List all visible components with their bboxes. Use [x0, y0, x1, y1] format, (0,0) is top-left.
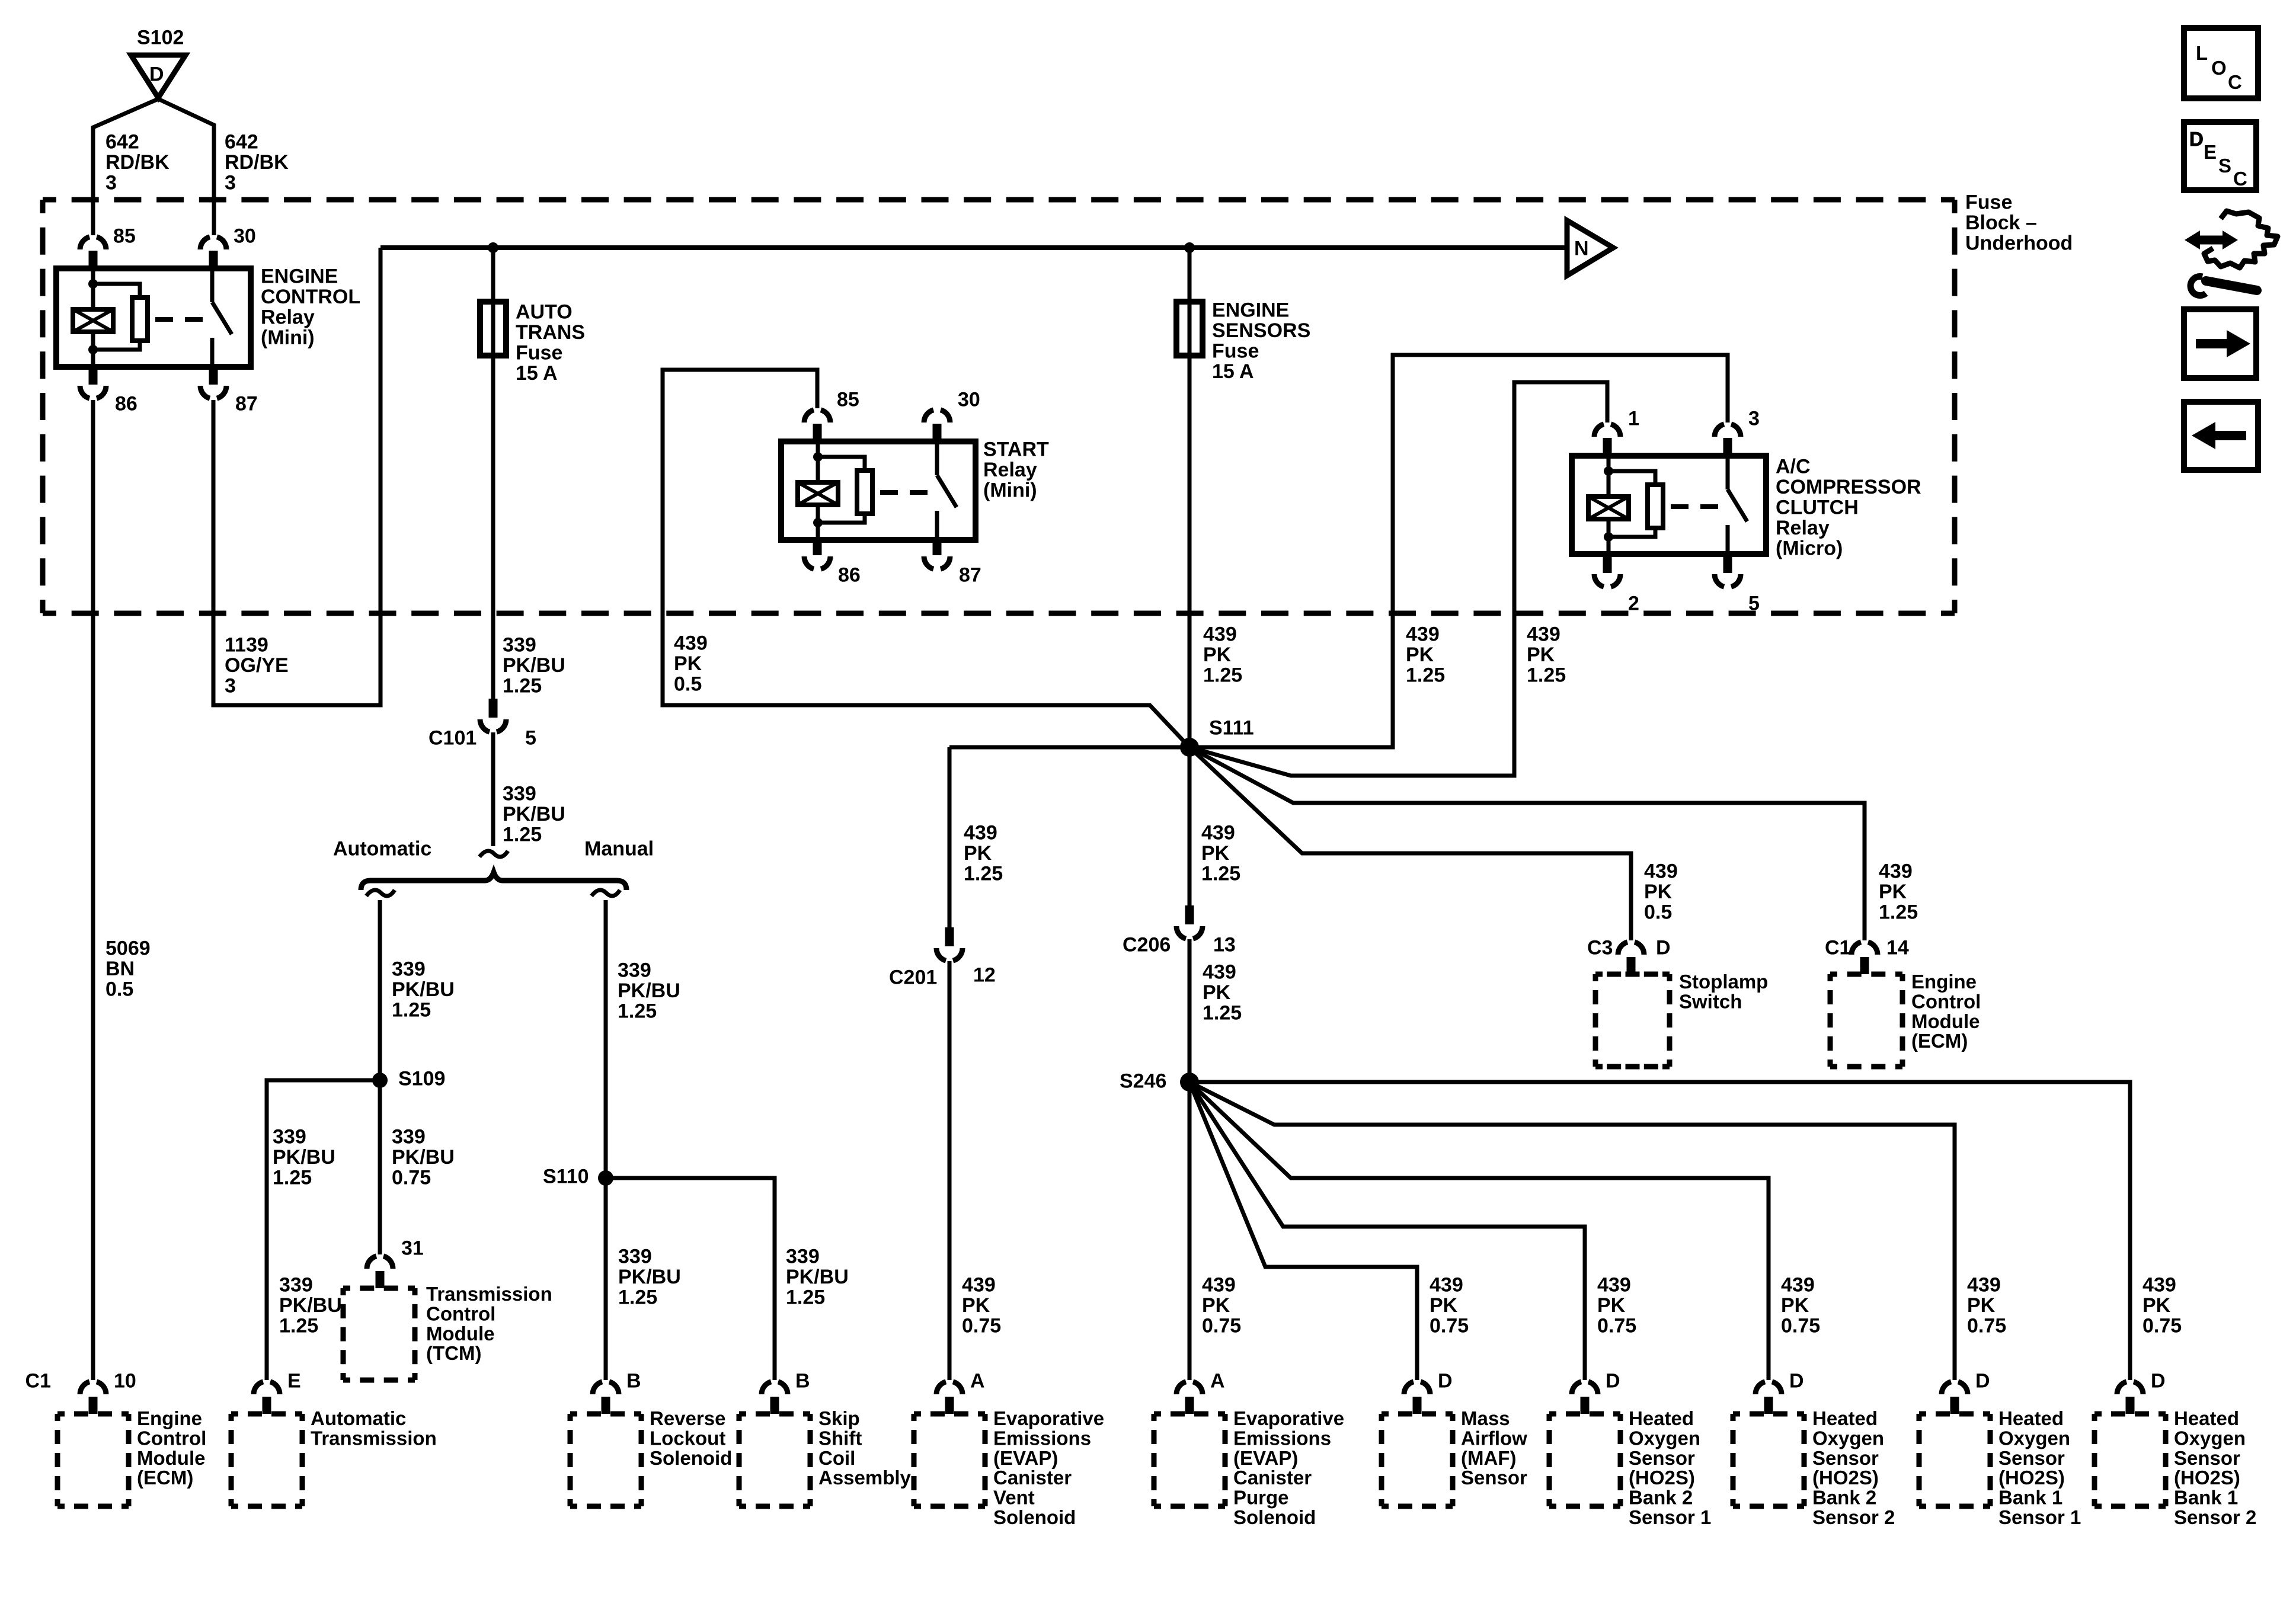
svg-text:1.25: 1.25 [273, 1167, 312, 1189]
svg-text:Shift: Shift [818, 1427, 862, 1449]
svg-text:C: C [2233, 168, 2247, 190]
svg-text:1.25: 1.25 [503, 824, 542, 846]
svg-text:Sensor: Sensor [1998, 1447, 2065, 1469]
svg-text:S109: S109 [398, 1068, 445, 1090]
svg-text:Heated: Heated [1629, 1407, 1694, 1429]
svg-text:87: 87 [235, 393, 258, 415]
svg-text:PK: PK [1527, 644, 1555, 666]
svg-text:B: B [626, 1370, 641, 1393]
svg-text:RD/BK: RD/BK [105, 151, 170, 174]
svg-text:Fuse: Fuse [1965, 191, 2012, 214]
svg-text:ENGINE: ENGINE [1212, 299, 1289, 322]
svg-text:1.25: 1.25 [786, 1286, 825, 1309]
svg-text:Transmission: Transmission [426, 1283, 552, 1305]
svg-text:15 A: 15 A [516, 362, 558, 385]
svg-text:Evaporative: Evaporative [993, 1407, 1104, 1429]
svg-text:S110: S110 [543, 1166, 589, 1188]
svg-text:1.25: 1.25 [964, 863, 1003, 885]
svg-text:E: E [287, 1370, 301, 1393]
svg-text:439: 439 [1879, 860, 1913, 883]
svg-text:439: 439 [1203, 961, 1236, 984]
svg-text:Sensor 2: Sensor 2 [1812, 1506, 1895, 1528]
svg-text:30: 30 [958, 389, 980, 411]
svg-text:Skip: Skip [818, 1407, 860, 1429]
svg-text:C201: C201 [889, 966, 937, 989]
svg-text:14: 14 [1886, 937, 1909, 959]
svg-text:D: D [2189, 128, 2204, 150]
svg-text:5: 5 [525, 727, 536, 750]
svg-text:1: 1 [1628, 408, 1639, 430]
svg-text:Canister: Canister [993, 1467, 1072, 1489]
svg-text:1.25: 1.25 [392, 999, 431, 1022]
svg-text:Relay: Relay [1776, 517, 1830, 539]
svg-text:339: 339 [618, 1246, 652, 1268]
svg-text:439: 439 [962, 1274, 996, 1297]
svg-text:PK/BU: PK/BU [503, 803, 565, 825]
svg-text:Mass: Mass [1461, 1407, 1510, 1429]
svg-text:Automatic: Automatic [311, 1407, 406, 1429]
svg-text:0.5: 0.5 [1644, 901, 1672, 924]
svg-text:Control: Control [137, 1427, 206, 1449]
svg-text:D: D [1975, 1370, 1990, 1393]
svg-text:30: 30 [234, 225, 256, 248]
svg-text:Engine: Engine [137, 1407, 202, 1429]
svg-text:PK/BU: PK/BU [618, 1266, 681, 1288]
svg-text:Sensor: Sensor [1629, 1447, 1695, 1469]
svg-text:PK: PK [1644, 881, 1673, 903]
svg-text:Fuse: Fuse [1212, 340, 1259, 363]
svg-text:3: 3 [1748, 408, 1760, 430]
svg-text:C1: C1 [1825, 937, 1850, 959]
svg-text:339: 339 [392, 1126, 426, 1148]
svg-text:Sensor: Sensor [2174, 1447, 2240, 1469]
svg-text:439: 439 [1967, 1274, 2001, 1297]
svg-text:0.75: 0.75 [1597, 1315, 1636, 1337]
svg-text:Underhood: Underhood [1965, 232, 2073, 255]
svg-text:PK: PK [962, 1294, 990, 1317]
svg-text:(MAF): (MAF) [1461, 1447, 1516, 1469]
svg-text:439: 439 [1430, 1274, 1463, 1297]
svg-text:(EVAP): (EVAP) [1233, 1447, 1298, 1469]
svg-text:PK/BU: PK/BU [786, 1266, 849, 1288]
svg-text:Switch: Switch [1679, 990, 1742, 1012]
svg-text:OG/YE: OG/YE [225, 654, 289, 677]
svg-text:Oxygen: Oxygen [1812, 1427, 1884, 1449]
svg-text:339: 339 [392, 958, 426, 981]
svg-text:0.5: 0.5 [674, 673, 702, 696]
svg-text:439: 439 [674, 632, 708, 655]
svg-text:1.25: 1.25 [503, 675, 542, 697]
svg-text:Coil: Coil [818, 1447, 855, 1469]
svg-text:10: 10 [114, 1370, 136, 1393]
svg-text:S111: S111 [1209, 717, 1254, 740]
svg-text:SENSORS: SENSORS [1212, 319, 1310, 342]
svg-text:Heated: Heated [1998, 1407, 2064, 1429]
svg-text:86: 86 [838, 564, 861, 587]
svg-text:1.25: 1.25 [1203, 1002, 1242, 1025]
svg-text:(HO2S): (HO2S) [1998, 1467, 2065, 1489]
svg-text:Bank 2: Bank 2 [1629, 1487, 1693, 1509]
svg-text:C1: C1 [25, 1370, 51, 1393]
svg-text:Module: Module [426, 1323, 494, 1345]
svg-text:(Mini): (Mini) [261, 327, 315, 349]
svg-text:Solenoid: Solenoid [1233, 1506, 1316, 1528]
svg-text:(ECM): (ECM) [137, 1467, 193, 1489]
svg-text:Manual: Manual [584, 838, 654, 860]
svg-text:L: L [2196, 42, 2208, 64]
svg-text:A: A [970, 1370, 985, 1393]
svg-text:PK: PK [1203, 644, 1232, 666]
svg-text:PK/BU: PK/BU [503, 654, 565, 677]
svg-text:C206: C206 [1123, 934, 1171, 956]
svg-text:439: 439 [1527, 623, 1560, 646]
svg-text:3: 3 [225, 172, 236, 194]
svg-text:0.75: 0.75 [392, 1167, 431, 1189]
svg-text:PK: PK [1201, 842, 1230, 865]
svg-text:642: 642 [105, 131, 139, 153]
svg-text:D: D [1438, 1370, 1453, 1393]
svg-text:PK: PK [1406, 644, 1434, 666]
svg-text:85: 85 [113, 225, 136, 248]
svg-text:TRANS: TRANS [516, 321, 585, 344]
svg-text:439: 439 [964, 822, 997, 844]
svg-text:439: 439 [1781, 1274, 1815, 1297]
svg-text:0.75: 0.75 [1202, 1315, 1241, 1337]
svg-text:3: 3 [225, 675, 236, 697]
svg-text:1.25: 1.25 [1879, 901, 1918, 924]
svg-text:339: 339 [618, 959, 651, 982]
svg-text:Oxygen: Oxygen [1998, 1427, 2070, 1449]
svg-text:Canister: Canister [1233, 1467, 1312, 1489]
svg-text:Emissions: Emissions [993, 1427, 1091, 1449]
svg-text:Sensor 1: Sensor 1 [1998, 1506, 2081, 1528]
svg-text:3: 3 [105, 172, 117, 194]
svg-text:PK: PK [1203, 981, 1231, 1004]
svg-text:Evaporative: Evaporative [1233, 1407, 1344, 1429]
svg-text:C: C [2228, 71, 2242, 93]
svg-text:RD/BK: RD/BK [225, 151, 289, 174]
svg-text:Heated: Heated [2174, 1407, 2239, 1429]
svg-text:S: S [2218, 155, 2231, 177]
svg-text:439: 439 [1406, 623, 1440, 646]
svg-text:Sensor: Sensor [1812, 1447, 1879, 1469]
svg-text:0.75: 0.75 [1430, 1315, 1469, 1337]
svg-text:PK/BU: PK/BU [392, 978, 455, 1001]
svg-text:86: 86 [115, 393, 137, 415]
svg-text:(ECM): (ECM) [1911, 1030, 1968, 1052]
svg-text:N: N [1574, 238, 1589, 260]
svg-text:O: O [2211, 57, 2227, 79]
svg-text:439: 439 [1203, 623, 1237, 646]
svg-text:Reverse: Reverse [650, 1407, 725, 1429]
svg-text:339: 339 [279, 1274, 313, 1297]
svg-text:31: 31 [401, 1237, 424, 1260]
svg-text:Purge: Purge [1233, 1487, 1289, 1509]
svg-text:339: 339 [273, 1126, 306, 1148]
svg-text:C3: C3 [1587, 937, 1613, 959]
svg-text:B: B [795, 1370, 810, 1393]
svg-text:PK: PK [964, 842, 992, 865]
svg-text:Oxygen: Oxygen [2174, 1427, 2246, 1449]
svg-text:Oxygen: Oxygen [1629, 1427, 1700, 1449]
svg-text:339: 339 [503, 634, 536, 657]
svg-text:1.25: 1.25 [1203, 664, 1242, 687]
svg-text:339: 339 [503, 783, 536, 805]
svg-text:PK: PK [1967, 1294, 1996, 1317]
svg-text:Automatic: Automatic [333, 838, 431, 860]
svg-text:PK: PK [1879, 881, 1907, 903]
svg-text:1139: 1139 [225, 634, 268, 657]
svg-text:439: 439 [1597, 1274, 1631, 1297]
svg-text:Block –: Block – [1965, 212, 2037, 234]
svg-text:Assembly: Assembly [818, 1467, 912, 1489]
svg-text:PK/BU: PK/BU [392, 1146, 455, 1169]
svg-text:D: D [1789, 1370, 1804, 1393]
svg-text:1.25: 1.25 [618, 1286, 657, 1309]
svg-text:PK/BU: PK/BU [273, 1146, 335, 1169]
svg-text:Control: Control [1911, 990, 1981, 1012]
svg-text:Sensor: Sensor [1461, 1467, 1527, 1489]
svg-text:0.5: 0.5 [105, 978, 133, 1001]
svg-text:5069: 5069 [105, 937, 151, 960]
svg-text:PK/BU: PK/BU [279, 1294, 342, 1317]
svg-text:ENGINE: ENGINE [261, 265, 338, 288]
svg-text:PK: PK [1597, 1294, 1626, 1317]
svg-text:COMPRESSOR: COMPRESSOR [1776, 476, 1921, 498]
svg-text:Emissions: Emissions [1233, 1427, 1331, 1449]
svg-text:Engine: Engine [1911, 971, 1977, 993]
svg-text:Bank 2: Bank 2 [1812, 1487, 1876, 1509]
svg-text:0.75: 0.75 [1781, 1315, 1820, 1337]
svg-text:(HO2S): (HO2S) [1812, 1467, 1879, 1489]
svg-text:1.25: 1.25 [1527, 664, 1566, 687]
svg-text:0.75: 0.75 [1967, 1315, 2006, 1337]
svg-text:D: D [1606, 1370, 1620, 1393]
svg-text:PK/BU: PK/BU [618, 980, 680, 1002]
svg-text:AUTO: AUTO [516, 301, 573, 324]
svg-text:1.25: 1.25 [1201, 863, 1240, 885]
svg-text:5: 5 [1748, 593, 1760, 615]
svg-text:Control: Control [426, 1302, 495, 1324]
svg-text:Module: Module [137, 1447, 205, 1469]
svg-text:87: 87 [959, 564, 981, 587]
svg-text:(EVAP): (EVAP) [993, 1447, 1058, 1469]
svg-text:(TCM): (TCM) [426, 1342, 481, 1364]
svg-text:Airflow: Airflow [1461, 1427, 1527, 1449]
svg-text:Sensor 1: Sensor 1 [1629, 1506, 1711, 1528]
svg-text:Solenoid: Solenoid [650, 1447, 732, 1469]
svg-text:(HO2S): (HO2S) [1629, 1467, 1695, 1489]
svg-text:E: E [2204, 141, 2217, 163]
svg-text:S102: S102 [137, 27, 184, 49]
svg-text:Vent: Vent [993, 1487, 1035, 1509]
svg-text:0.75: 0.75 [962, 1315, 1001, 1337]
svg-text:(Micro): (Micro) [1776, 537, 1843, 560]
svg-text:Bank 1: Bank 1 [1998, 1487, 2062, 1509]
svg-text:Heated: Heated [1812, 1407, 1878, 1429]
svg-text:642: 642 [225, 131, 258, 153]
svg-text:PK: PK [1430, 1294, 1458, 1317]
svg-text:Solenoid: Solenoid [993, 1506, 1076, 1528]
svg-text:13: 13 [1213, 934, 1236, 956]
svg-text:Bank 1: Bank 1 [2174, 1487, 2238, 1509]
svg-text:15 A: 15 A [1212, 360, 1254, 383]
svg-text:START: START [983, 438, 1049, 461]
svg-text:PK: PK [2142, 1294, 2171, 1317]
svg-text:CLUTCH: CLUTCH [1776, 497, 1859, 519]
svg-text:Transmission: Transmission [311, 1427, 437, 1449]
svg-text:BN: BN [105, 958, 135, 980]
svg-text:C101: C101 [428, 727, 477, 750]
svg-text:S246: S246 [1120, 1070, 1166, 1093]
svg-text:439: 439 [1644, 860, 1678, 883]
svg-text:PK: PK [674, 652, 702, 675]
svg-text:Relay: Relay [261, 306, 315, 329]
svg-text:2: 2 [1628, 593, 1639, 615]
svg-text:Fuse: Fuse [516, 342, 562, 364]
svg-text:1.25: 1.25 [1406, 664, 1445, 687]
svg-text:0.75: 0.75 [2142, 1315, 2182, 1337]
svg-text:Sensor 2: Sensor 2 [2174, 1506, 2256, 1528]
svg-text:PK: PK [1781, 1294, 1809, 1317]
svg-text:439: 439 [2142, 1274, 2176, 1297]
svg-text:Lockout: Lockout [650, 1427, 725, 1449]
svg-text:439: 439 [1201, 822, 1235, 844]
svg-text:Relay: Relay [983, 459, 1037, 481]
svg-text:D: D [2151, 1370, 2166, 1393]
svg-text:1.25: 1.25 [618, 1000, 657, 1023]
svg-text:A: A [1210, 1370, 1225, 1393]
svg-text:CONTROL: CONTROL [261, 286, 360, 308]
svg-text:12: 12 [973, 964, 996, 987]
svg-text:85: 85 [837, 389, 859, 411]
svg-text:Stoplamp: Stoplamp [1679, 971, 1768, 993]
svg-text:1.25: 1.25 [279, 1315, 318, 1337]
svg-text:D: D [1656, 937, 1671, 959]
svg-text:A/C: A/C [1776, 456, 1811, 478]
svg-text:(Mini): (Mini) [983, 479, 1037, 502]
svg-text:PK: PK [1202, 1294, 1230, 1317]
svg-text:339: 339 [786, 1246, 820, 1268]
svg-text:D: D [149, 63, 164, 86]
svg-text:439: 439 [1202, 1274, 1236, 1297]
svg-text:(HO2S): (HO2S) [2174, 1467, 2240, 1489]
svg-text:Module: Module [1911, 1010, 1980, 1032]
